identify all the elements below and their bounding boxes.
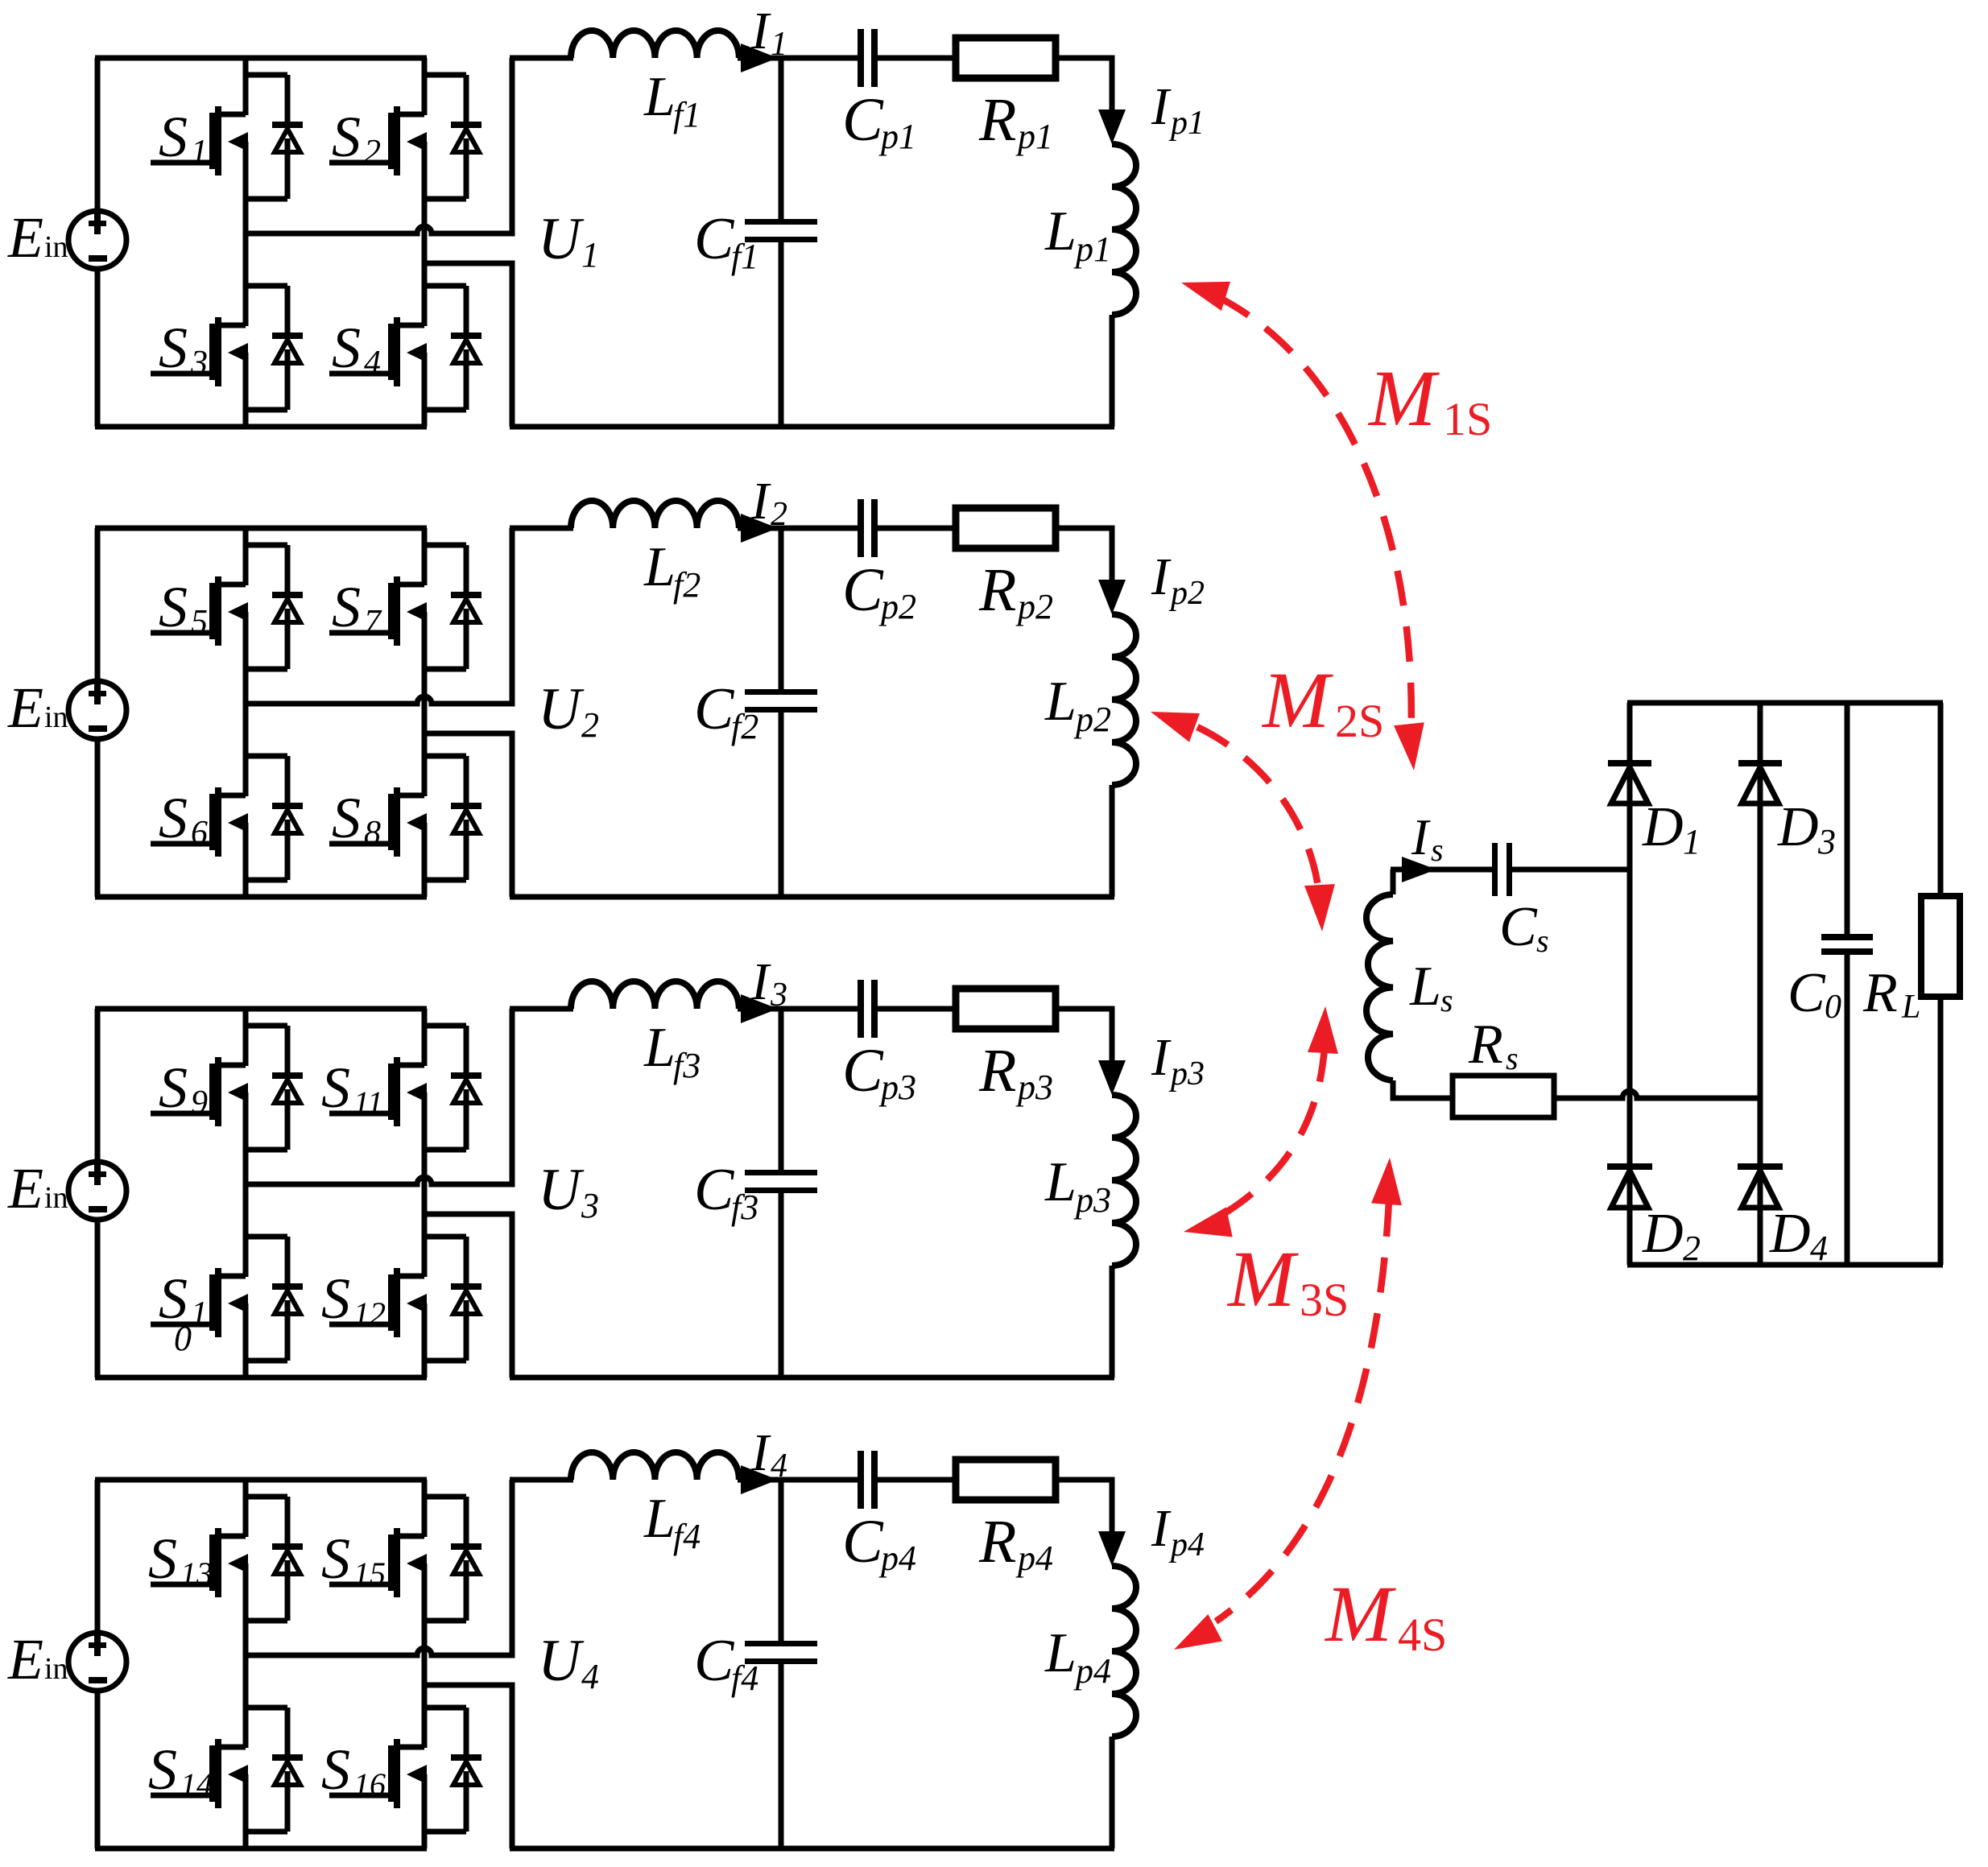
wire upper output tap U3 with hop [246, 1009, 512, 1184]
capacitor C_p2 [858, 499, 878, 557]
current arrow I_4 [741, 1465, 778, 1494]
body diode of S4 [424, 286, 482, 410]
wire LCC bottom 3 [510, 1375, 1114, 1381]
label I_p2 [1151, 547, 1205, 612]
coil L_p1 [1112, 144, 1136, 315]
svg-text:3: 3 [1817, 822, 1836, 861]
svg-text:p2: p2 [1015, 587, 1053, 626]
wire top rail inverter 4 [95, 1477, 427, 1483]
wire C_f junction upper 4 [779, 1480, 784, 1642]
wire right leg lower 3 [422, 1303, 428, 1378]
svg-text:S: S [321, 1266, 350, 1331]
body diode of S13 [246, 1497, 303, 1621]
label M1S [1367, 353, 1492, 445]
label R_s [1468, 1014, 1519, 1076]
wire E_in branch upper 3 [95, 1009, 101, 1163]
label S1 [159, 105, 208, 171]
inductor L_f2 [571, 501, 739, 528]
svg-text:M: M [1261, 655, 1333, 745]
label E_in 2 [7, 675, 68, 740]
svg-text:11: 11 [353, 1084, 383, 1121]
svg-text:14: 14 [180, 1766, 213, 1803]
svg-text:I: I [1411, 808, 1431, 865]
wire secondary top (Is to bridge) [1391, 867, 1492, 873]
label C_p1 [842, 86, 916, 156]
svg-text:f3: f3 [673, 1046, 701, 1085]
transistor S16 (bottom-right) [329, 1739, 427, 1808]
current arrow I_p3 [1098, 1060, 1126, 1095]
transistor S13 (top-left) [151, 1528, 248, 1597]
svg-text:L: L [1409, 956, 1441, 1018]
wire left leg upper 3 [243, 1009, 249, 1066]
label D3 [1777, 796, 1836, 861]
label L_f2 [643, 536, 701, 605]
svg-text:R: R [1468, 1014, 1503, 1076]
svg-text:R: R [978, 86, 1016, 154]
body diode of S15 [424, 1497, 482, 1621]
svg-text:5: 5 [191, 604, 208, 641]
wire left leg lower 2 [243, 823, 249, 897]
svg-text:I: I [1151, 1499, 1172, 1558]
wire C_p to R_p 4 [878, 1477, 955, 1483]
label D1 [1642, 796, 1701, 861]
svg-text:U: U [538, 1628, 585, 1694]
label S5 [159, 575, 208, 641]
wire right leg middle 3 [422, 1093, 428, 1277]
svg-text:I: I [1151, 547, 1172, 606]
source E_in 4 [68, 1633, 126, 1691]
label C_f2 [694, 676, 758, 746]
wire upper output tap U2 with hop [246, 528, 512, 704]
svg-text:I: I [1151, 1028, 1172, 1087]
label S15 [321, 1526, 386, 1592]
wire left leg lower 1 [243, 353, 249, 427]
label S14 [148, 1737, 213, 1803]
svg-text:4: 4 [771, 1448, 787, 1485]
arrowhead M2S at Ls [1304, 884, 1335, 931]
current arrow I_3 [741, 994, 778, 1023]
svg-text:in: in [44, 1652, 68, 1686]
label U2 [538, 676, 599, 745]
wire rectifier top rail [1627, 700, 1943, 706]
svg-text:L: L [1044, 1151, 1077, 1213]
wire R_s to bridge with hop [1554, 1091, 1760, 1098]
wire LCC bottom 2 [510, 894, 1114, 900]
inductor L_f3 [571, 981, 739, 1009]
svg-text:p1: p1 [878, 117, 916, 156]
svg-text:U: U [538, 206, 585, 272]
label S7 [332, 575, 382, 641]
wire right leg lower 1 [422, 353, 428, 427]
arrowhead M3S at Ls [1308, 1006, 1338, 1054]
resistor R_L [1921, 896, 1960, 997]
wire right leg upper 3 [422, 1009, 428, 1066]
svg-text:M: M [1367, 353, 1440, 443]
label D4 [1769, 1203, 1828, 1268]
wire bottom rail inverter 2 [95, 894, 427, 900]
svg-text:1: 1 [771, 26, 787, 63]
wire C_f junction lower 2 [779, 712, 784, 897]
label M4S [1324, 1569, 1447, 1661]
transistor S11 (top-right) [329, 1057, 427, 1126]
label C_f3 [694, 1157, 758, 1227]
svg-text:p3: p3 [1168, 1055, 1205, 1093]
wire E_in branch lower 1 [95, 268, 101, 427]
svg-text:E: E [7, 675, 43, 740]
source E_in 2 [68, 681, 126, 739]
svg-text:L: L [643, 1017, 676, 1079]
svg-text:4: 4 [364, 345, 381, 382]
svg-text:f2: f2 [673, 565, 701, 605]
svg-text:S: S [332, 575, 361, 639]
label I_4 [750, 1423, 787, 1485]
wire left leg middle 2 [243, 612, 249, 796]
arrowhead M2S at Lp2 [1151, 712, 1200, 742]
svg-text:L: L [643, 66, 676, 128]
svg-text:0: 0 [174, 1319, 192, 1358]
svg-text:S: S [321, 1526, 350, 1591]
svg-text:2: 2 [771, 496, 787, 533]
label C_p4 [842, 1508, 916, 1578]
inductor L_f1 [571, 31, 739, 58]
svg-text:S: S [332, 105, 361, 169]
wire left leg middle 3 [243, 1093, 249, 1277]
svg-text:in: in [44, 700, 68, 734]
wire left leg lower 3 [243, 1303, 249, 1378]
svg-text:E: E [7, 1627, 43, 1691]
svg-text:L: L [1044, 200, 1077, 262]
wire bottom rail inverter 4 [95, 1846, 427, 1852]
svg-text:S: S [321, 1737, 350, 1802]
body diode of S14 [246, 1708, 303, 1832]
transistor S1 (bottom-left) [151, 1268, 248, 1337]
wire lower output tap U1 [424, 263, 512, 427]
label S11 [321, 1055, 383, 1121]
svg-text:2: 2 [1683, 1229, 1701, 1268]
inductor L_f4 [571, 1452, 739, 1480]
svg-text:p3: p3 [878, 1068, 916, 1107]
svg-text:3: 3 [770, 977, 787, 1014]
capacitor C_f3 [745, 1170, 817, 1193]
capacitor C_p4 [858, 1451, 878, 1509]
label S6 [159, 786, 208, 852]
wire lower output tap U3 [424, 1214, 512, 1378]
transistor S12 (bottom-right) [329, 1268, 427, 1337]
wire R_p to corner 3 [1056, 1009, 1112, 1062]
label C_p3 [842, 1037, 916, 1107]
capacitor C_f2 [745, 689, 817, 713]
svg-text:p2: p2 [1073, 700, 1111, 739]
svg-text:f1: f1 [731, 237, 758, 276]
label L_p3 [1044, 1151, 1111, 1220]
current arrow I_p2 [1098, 580, 1126, 614]
wire left leg upper 4 [243, 1480, 249, 1537]
svg-text:9: 9 [191, 1084, 208, 1121]
wire right leg middle 4 [422, 1563, 428, 1748]
svg-text:D: D [1642, 796, 1684, 858]
label S8 [332, 786, 381, 852]
mutual inductance arc M2S [1197, 727, 1319, 892]
label I_s [1411, 808, 1444, 868]
wire C_s to bridge [1512, 867, 1630, 873]
current arrow I_p4 [1098, 1531, 1126, 1566]
wire LCC top left 3 [510, 1006, 573, 1012]
svg-text:1: 1 [191, 134, 208, 171]
wire lower output tap U4 [424, 1685, 512, 1848]
label S4 [332, 316, 381, 382]
wire right leg upper 4 [422, 1480, 428, 1537]
svg-text:2: 2 [581, 705, 599, 745]
svg-text:S: S [332, 786, 361, 850]
wire LCC top left 1 [510, 56, 573, 61]
wire right leg upper 1 [422, 58, 428, 115]
svg-text:in: in [44, 1181, 68, 1215]
wire E_in branch lower 2 [95, 738, 101, 897]
svg-text:C: C [842, 1037, 884, 1105]
wire C_f junction lower 3 [779, 1192, 784, 1378]
wire LCC top mid 3 [738, 1006, 858, 1012]
body diode of S9 [246, 1026, 303, 1150]
capacitor C_f4 [745, 1641, 817, 1664]
wire coil to bottom 4 [1110, 1737, 1115, 1848]
wire LCC top mid 1 [738, 56, 858, 61]
label R_L [1862, 962, 1920, 1026]
svg-text:M: M [1324, 1569, 1396, 1658]
resistor R_s [1453, 1076, 1554, 1117]
svg-text:S: S [321, 1055, 350, 1120]
svg-text:s: s [1431, 832, 1444, 868]
resistor R_p4 [956, 1460, 1056, 1500]
svg-text:1: 1 [581, 235, 599, 275]
body diode of S1 [246, 1237, 303, 1361]
svg-text:R: R [1862, 962, 1898, 1024]
diode D1 [1608, 760, 1651, 803]
label C_s [1499, 896, 1549, 959]
label L_f4 [643, 1488, 701, 1556]
label S1 [159, 1266, 208, 1332]
wire top rail inverter 1 [95, 56, 427, 61]
svg-text:3: 3 [581, 1186, 599, 1225]
wire C_p to R_p 2 [878, 526, 955, 531]
svg-text:1: 1 [191, 1295, 208, 1332]
svg-text:L: L [1901, 989, 1920, 1026]
resistor R_p2 [956, 508, 1056, 548]
label U1 [538, 206, 599, 275]
svg-text:15: 15 [353, 1555, 386, 1592]
wire right leg middle 1 [422, 142, 428, 326]
label I_p4 [1151, 1499, 1205, 1563]
label 0 (second line of S10) [174, 1319, 192, 1358]
transistor S14 (bottom-left) [151, 1739, 248, 1808]
capacitor C_f1 [745, 219, 817, 242]
wire E_in branch upper 1 [95, 58, 101, 212]
svg-text:C: C [1788, 962, 1826, 1024]
svg-text:p3: p3 [1073, 1180, 1111, 1220]
svg-text:2S: 2S [1335, 695, 1384, 747]
svg-text:s: s [1440, 982, 1453, 1018]
label C_f1 [694, 206, 758, 276]
svg-text:S: S [332, 316, 361, 380]
svg-text:7: 7 [364, 604, 382, 641]
label L_s [1409, 956, 1453, 1018]
wire E_in branch upper 2 [95, 528, 101, 682]
transistor S5 (top-left) [151, 576, 248, 646]
transistor S3 (bottom-left) [151, 317, 248, 386]
wire C_p to R_p 1 [878, 56, 955, 61]
label L_f3 [643, 1017, 701, 1085]
mutual inductance arc M3S [1209, 1047, 1325, 1222]
body diode of S2 [424, 75, 482, 199]
svg-text:p1: p1 [1015, 117, 1053, 156]
svg-text:4: 4 [1810, 1229, 1828, 1268]
label I_2 [750, 472, 787, 533]
wire upper output tap U4 with hop [246, 1480, 512, 1655]
label C_f4 [694, 1628, 758, 1698]
wire R_p to corner 1 [1056, 58, 1112, 111]
capacitor C_p3 [858, 980, 878, 1038]
wire LCC bottom 1 [510, 424, 1114, 430]
arrowhead M3S at Lp3 [1184, 1207, 1233, 1237]
svg-text:C: C [694, 676, 735, 742]
wire Ls bottom lead [1393, 1080, 1453, 1098]
source E_in 1 [68, 211, 126, 269]
svg-text:16: 16 [353, 1766, 386, 1803]
label L_p1 [1044, 200, 1111, 269]
svg-text:3S: 3S [1300, 1274, 1349, 1326]
coil L_s [1366, 894, 1393, 1080]
svg-text:p4: p4 [1168, 1526, 1205, 1563]
svg-text:L: L [1044, 1622, 1077, 1684]
diode D2 [1607, 1163, 1652, 1208]
label R_p4 [978, 1508, 1053, 1578]
wire C_f junction upper 3 [779, 1009, 784, 1171]
svg-text:0: 0 [1825, 989, 1841, 1026]
svg-text:p1: p1 [1168, 105, 1205, 142]
label E_in 3 [7, 1156, 68, 1221]
svg-text:I: I [750, 2, 771, 60]
wire left leg middle 1 [243, 142, 249, 326]
body diode of S6 [246, 756, 303, 880]
svg-text:p4: p4 [1073, 1651, 1111, 1691]
svg-text:U: U [538, 676, 585, 742]
svg-text:I: I [1151, 77, 1172, 136]
wire C_f junction lower 1 [779, 242, 784, 427]
label S12 [321, 1266, 386, 1332]
transistor S2 (top-right) [329, 106, 427, 176]
wire E_in branch lower 3 [95, 1219, 101, 1378]
transistor S7 (top-right) [329, 576, 427, 646]
svg-text:S: S [159, 786, 188, 850]
wire rectifier left leg [1627, 703, 1633, 1265]
svg-text:R: R [978, 556, 1016, 624]
wire C_p to R_p 3 [878, 1006, 955, 1012]
svg-text:D: D [1769, 1203, 1811, 1265]
svg-text:C: C [842, 86, 884, 154]
svg-text:C: C [1499, 896, 1538, 958]
body diode of S12 [424, 1237, 482, 1361]
wire RL branch upper [1938, 703, 1944, 898]
svg-text:D: D [1777, 796, 1819, 858]
svg-text:s: s [1536, 923, 1549, 959]
mutual inductance arc M1S [1218, 297, 1411, 745]
wire LCC top left 4 [510, 1477, 573, 1483]
svg-text:C: C [842, 556, 884, 624]
body diode of S1 [246, 75, 303, 199]
wire coil to bottom 3 [1110, 1266, 1115, 1378]
svg-text:p4: p4 [1015, 1539, 1053, 1578]
svg-text:p2: p2 [1168, 575, 1205, 612]
arrowhead M4S at Rs [1371, 1158, 1402, 1205]
transistor S4 (bottom-right) [329, 317, 427, 386]
current arrow I_s [1402, 857, 1436, 882]
wire LCC bottom 4 [510, 1846, 1114, 1852]
svg-text:8: 8 [364, 815, 381, 852]
svg-text:1: 1 [1683, 822, 1701, 861]
coil L_p3 [1112, 1095, 1136, 1266]
label I_p3 [1151, 1028, 1205, 1093]
svg-text:C: C [842, 1508, 884, 1576]
svg-text:I: I [750, 1423, 771, 1482]
label E_in 4 [7, 1627, 68, 1691]
label R_p2 [978, 556, 1053, 626]
svg-text:S: S [159, 575, 188, 639]
svg-text:p3: p3 [1015, 1068, 1053, 1107]
resistor R_p1 [956, 38, 1056, 78]
svg-text:p2: p2 [878, 587, 916, 626]
svg-text:f3: f3 [731, 1188, 758, 1227]
svg-text:D: D [1642, 1203, 1684, 1265]
coil L_p4 [1112, 1566, 1136, 1737]
wire LCC top mid 2 [738, 526, 858, 531]
label L_p4 [1044, 1622, 1111, 1691]
wire rectifier mid leg [1758, 703, 1763, 1265]
wire E_in branch lower 4 [95, 1690, 101, 1848]
resistor R_p3 [956, 989, 1056, 1029]
svg-text:R: R [978, 1508, 1016, 1576]
label L_p2 [1044, 671, 1111, 739]
wire LCC top mid 4 [738, 1477, 858, 1483]
svg-text:6: 6 [191, 815, 208, 852]
mutual inductance arc M4S [1216, 1201, 1389, 1621]
transistor S8 (bottom-right) [329, 787, 427, 857]
wire left leg upper 1 [243, 58, 249, 115]
svg-text:C: C [694, 1628, 735, 1694]
svg-text:E: E [7, 205, 43, 270]
wire lower output tap U2 [424, 733, 512, 897]
wire bottom rail inverter 1 [95, 424, 427, 430]
svg-text:1S: 1S [1443, 393, 1492, 445]
label D2 [1642, 1203, 1701, 1268]
body diode of S7 [424, 545, 482, 669]
wire left leg upper 2 [243, 528, 249, 585]
label I_3 [750, 952, 787, 1014]
svg-text:S: S [148, 1737, 177, 1802]
current arrow I_1 [741, 43, 778, 72]
svg-text:E: E [7, 1156, 43, 1221]
body diode of S11 [424, 1026, 482, 1150]
body diode of S8 [424, 756, 482, 880]
wire R_p to corner 4 [1056, 1480, 1112, 1533]
wire C_f junction upper 1 [779, 58, 784, 220]
svg-text:in: in [44, 230, 68, 264]
transistor S1 (top-left) [151, 106, 248, 176]
svg-text:s: s [1506, 1040, 1519, 1076]
arrowhead M1S at Lp1 [1181, 282, 1230, 311]
svg-text:13: 13 [180, 1555, 213, 1592]
wire rectifier bottom rail [1627, 1262, 1943, 1268]
wire top rail inverter 2 [95, 526, 427, 531]
label S3 [159, 316, 208, 382]
